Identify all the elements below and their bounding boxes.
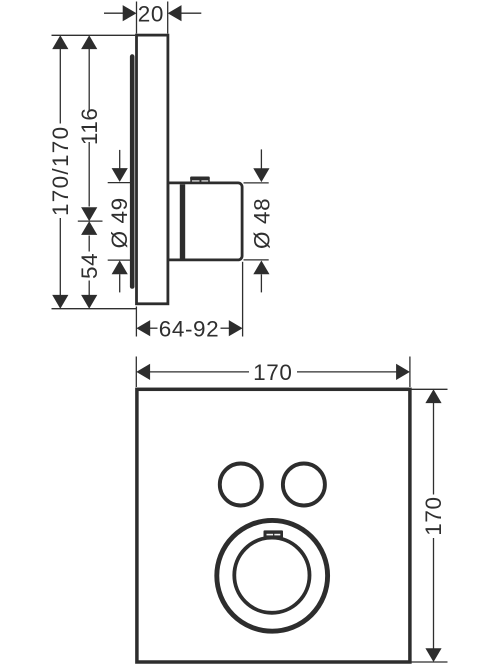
svg-text:170/170: 170/170 [48,126,73,216]
dimension 116/54: bottom arrow [81,295,97,309]
dimension d49: top leader, arrow and tick [108,150,133,183]
svg-text:Ø 49: Ø 49 [107,197,132,248]
svg-text:116: 116 [77,107,102,145]
dimension 20: extension lines [137,2,168,34]
svg-text:170: 170 [421,496,446,535]
front view: right select button [283,464,325,506]
dimension d49: bottom arrow, tick and leader [108,260,133,292]
handle (side view, thermostat knob) [168,183,242,260]
svg-text:170: 170 [253,360,292,385]
wall seal bar behind plate [130,54,135,288]
svg-text:20: 20 [138,2,164,27]
dimension 64-92: dimension line and arrows [136,320,242,336]
dimension 170/170: extension lines [52,35,137,308]
dimension 20: left leader and arrow [104,5,137,21]
front dimension 170 right: dimension line and arrows [425,389,441,662]
dimension 20: right leader and arrow [168,5,202,21]
dimension 64-92: extension lines [136,262,242,337]
front dimension 170 right: extension lines [410,389,448,662]
dimension 116/54: dimension line segments [88,48,90,296]
dimension d48: extension segments [244,183,269,260]
svg-text:54: 54 [77,253,102,279]
front dimension 170 top: extension lines [136,357,410,388]
dimension 116/54: top arrow [81,35,97,49]
dimension 116/54: middle bowtie arrows and tick [78,207,103,235]
dimension d48: bottom arrow and leader [253,261,269,293]
dimension d48: top leader and arrow [253,149,269,182]
front view: handle outer ring [217,520,328,631]
front dimension 170 top: dimension line and arrows [136,364,410,380]
handle inner ring bar [180,184,185,258]
svg-text:64-92: 64-92 [159,316,220,341]
front view: handle inner ring [234,538,309,613]
safety stop button (side view) [190,177,210,183]
escutcheon plate (side view) [137,35,168,304]
svg-text:Ø 48: Ø 48 [249,198,274,249]
front view: safety stop tab [264,530,284,538]
front view: square plate [137,389,410,662]
dimension 170/170: dimension line with arrows [52,35,68,308]
front view: left select button [220,464,262,506]
